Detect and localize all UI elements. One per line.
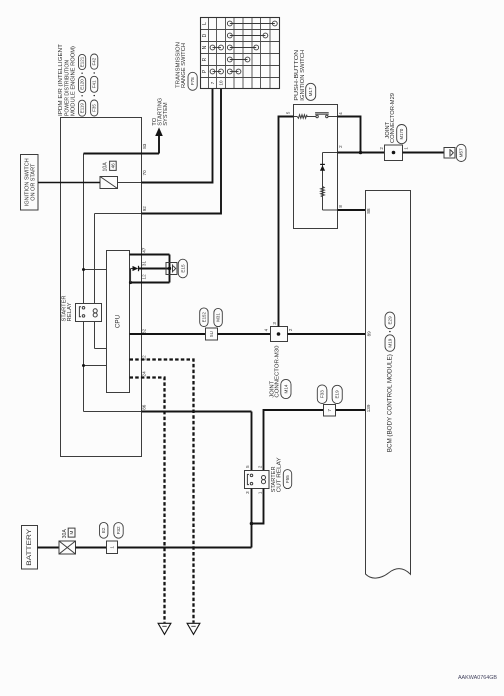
svg-text:R: R — [202, 57, 208, 61]
svg-text:CUT RELAY: CUT RELAY — [277, 457, 283, 492]
svg-text:10A: 10A — [103, 162, 109, 172]
svg-text:M57: M57 — [459, 148, 464, 157]
svg-text:IPDM E/R (INTELLIGENT: IPDM E/R (INTELLIGENT — [58, 44, 64, 116]
svg-text:F55: F55 — [285, 475, 290, 483]
svg-text:12: 12 — [141, 274, 146, 280]
svg-text:MODULE ENGINE ROOM): MODULE ENGINE ROOM) — [71, 46, 77, 116]
svg-text:M17: M17 — [308, 87, 313, 96]
svg-text:M31: M31 — [216, 313, 221, 322]
svg-text:24: 24 — [141, 371, 146, 377]
svg-text:46: 46 — [110, 163, 115, 169]
svg-text:83: 83 — [142, 143, 147, 149]
svg-text:IGNITION SWITCH: IGNITION SWITCH — [24, 158, 30, 206]
svg-text:31: 31 — [141, 261, 146, 267]
svg-text:BCM (BODY CONTROL MODULE): BCM (BODY CONTROL MODULE) — [386, 354, 393, 452]
svg-text:N: N — [202, 45, 208, 49]
svg-text:139: 139 — [366, 404, 371, 412]
svg-text:F42: F42 — [92, 57, 97, 65]
svg-text:RANGE SWITCH: RANGE SWITCH — [181, 43, 187, 88]
svg-text:F33: F33 — [320, 390, 325, 398]
svg-text:70: 70 — [142, 170, 147, 176]
svg-text:88: 88 — [366, 208, 371, 214]
svg-text:30A: 30A — [62, 529, 68, 539]
svg-text:E2: E2 — [101, 527, 106, 533]
svg-text:E119: E119 — [80, 103, 85, 114]
svg-text:E152: E152 — [201, 312, 206, 323]
svg-text:E29: E29 — [387, 316, 392, 325]
svg-text:F78: F78 — [190, 77, 195, 85]
svg-text:SYSTEM: SYSTEM — [163, 102, 169, 126]
svg-text:1: 1 — [110, 546, 115, 549]
svg-text:7: 7 — [327, 409, 332, 412]
svg-text:E120: E120 — [80, 79, 85, 90]
svg-text:AAKWA0764GB: AAKWA0764GB — [458, 675, 497, 681]
svg-text:86: 86 — [141, 404, 146, 410]
svg-text:M: M — [69, 531, 74, 535]
svg-text:M19: M19 — [387, 338, 392, 347]
svg-text:ON OR START: ON OR START — [31, 163, 37, 201]
svg-text:D: D — [202, 33, 208, 37]
svg-text:5U: 5U — [209, 331, 214, 337]
svg-text:E121: E121 — [80, 56, 85, 67]
svg-text:CONNECTOR-M30: CONNECTOR-M30 — [275, 346, 281, 398]
svg-text:RELAY: RELAY — [67, 302, 73, 321]
svg-text:10: 10 — [218, 80, 223, 86]
svg-text:E15: E15 — [180, 264, 185, 273]
svg-text:F35: F35 — [92, 104, 97, 112]
svg-text:L: L — [202, 22, 208, 25]
svg-text:F41: F41 — [92, 80, 97, 88]
svg-text:F32: F32 — [116, 526, 121, 534]
svg-text:BATTERY: BATTERY — [26, 528, 33, 566]
svg-text:92: 92 — [142, 206, 147, 212]
svg-text:E19: E19 — [335, 390, 340, 399]
svg-text:CPU: CPU — [115, 314, 122, 328]
svg-text:M170: M170 — [399, 128, 404, 139]
svg-text:POWER DISTRIBUTION: POWER DISTRIBUTION — [64, 60, 70, 116]
svg-text:47: 47 — [141, 247, 146, 253]
svg-text:M14: M14 — [283, 384, 288, 393]
svg-text:CONNECTOR-M29: CONNECTOR-M29 — [390, 93, 396, 143]
svg-text:IGNITION SWITCH: IGNITION SWITCH — [300, 50, 306, 101]
svg-text:89: 89 — [366, 331, 371, 337]
